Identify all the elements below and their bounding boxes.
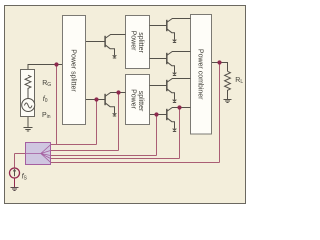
- svg-text:RL: RL: [235, 77, 243, 85]
- svg-text:Power splitter: Power splitter: [70, 49, 77, 92]
- svg-text:f0: f0: [43, 96, 48, 104]
- svg-text:Power: Power: [130, 89, 137, 110]
- svg-text:fS: fS: [22, 173, 28, 181]
- svg-text:splitter: splitter: [137, 32, 144, 53]
- svg-text:Power: Power: [130, 31, 137, 52]
- svg-text:splitter: splitter: [137, 91, 144, 112]
- svg-text:Power combiner: Power combiner: [196, 49, 203, 100]
- svg-text:RG: RG: [42, 80, 51, 88]
- svg-text:Pin: Pin: [42, 112, 51, 120]
